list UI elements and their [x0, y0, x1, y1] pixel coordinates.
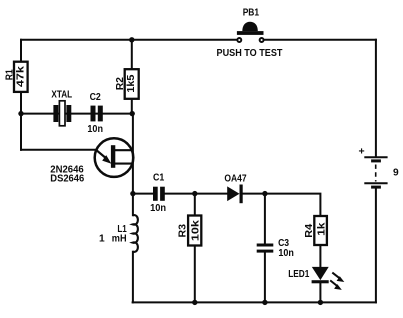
svg-text:DS2646: DS2646	[50, 173, 84, 184]
wire L1 bottom to rail	[132, 252, 134, 303]
capacitor C1	[150, 172, 166, 214]
wire R3 column top	[194, 194, 196, 216]
LED1	[288, 267, 344, 290]
wire base column through transistor	[132, 114, 134, 216]
wire diode to R4 corner	[243, 194, 321, 216]
wire left column	[20, 40, 22, 150]
crystal XTAL	[51, 90, 72, 126]
svg-text:1k5: 1k5	[126, 74, 137, 92]
resistor R3	[178, 216, 202, 246]
wire top rail left segment	[21, 39, 236, 41]
wire top rail right segment	[264, 39, 376, 41]
wire LED to rail	[319, 283, 321, 302]
wire R2 bottom to node	[131, 99, 133, 114]
node R1-XTAL junction	[18, 111, 23, 116]
wire C1 to diode	[165, 193, 227, 195]
wire right column upper	[375, 40, 377, 157]
svg-text:+: +	[359, 145, 365, 157]
wire C1 row left	[133, 193, 153, 195]
svg-text:XTAL: XTAL	[51, 90, 72, 101]
svg-text:1: 1	[99, 234, 105, 245]
node C1-R3 junction	[192, 191, 197, 196]
capacitor C2	[87, 92, 103, 135]
svg-text:OA47: OA47	[224, 174, 246, 185]
svg-text:mH: mH	[112, 234, 127, 245]
wire bottom rail	[133, 301, 376, 303]
wire R3 column bottom	[194, 245, 196, 302]
node R3 bottom junction	[192, 300, 197, 305]
svg-text:10n: 10n	[150, 203, 166, 214]
wire right column lower	[375, 189, 377, 303]
resistor R1	[4, 62, 27, 92]
resistor R2	[115, 69, 139, 99]
wire R4 to LED	[319, 245, 321, 267]
svg-text:PB1: PB1	[243, 8, 260, 19]
capacitor C3	[257, 238, 294, 259]
svg-text:R2: R2	[115, 77, 126, 90]
battery BT1 9V	[359, 145, 399, 188]
svg-text:10n: 10n	[87, 124, 103, 135]
node C3 bottom junction	[262, 300, 267, 305]
svg-text:R3: R3	[178, 224, 189, 238]
push button PB1	[217, 8, 284, 59]
node R2 top junction	[129, 37, 134, 42]
wire emitter row	[21, 149, 97, 151]
resistor R4	[304, 216, 328, 245]
diode D1 OA47	[224, 174, 246, 204]
svg-text:1k: 1k	[317, 222, 328, 236]
node diode-C3 junction	[262, 191, 267, 196]
svg-text:10n: 10n	[278, 248, 294, 259]
wire R2 column top	[131, 40, 133, 69]
svg-text:PUSH TO TEST: PUSH TO TEST	[217, 48, 284, 59]
node R2-C2 junction	[130, 111, 135, 116]
wire C3 column bottom	[264, 253, 266, 303]
svg-text:R4: R4	[304, 224, 315, 238]
svg-text:R1: R1	[4, 69, 15, 80]
svg-text:10k: 10k	[190, 220, 201, 241]
svg-text:47k: 47k	[16, 66, 27, 87]
node LED bottom junction	[318, 300, 323, 305]
svg-text:9: 9	[393, 168, 399, 179]
wire XTAL row	[21, 113, 133, 115]
svg-text:C1: C1	[153, 172, 165, 183]
node C1-L1 junction	[130, 191, 135, 196]
inductor L1	[99, 215, 138, 252]
svg-text:LED1: LED1	[288, 269, 309, 280]
wire C3 column top	[264, 194, 266, 244]
svg-text:C2: C2	[90, 92, 101, 103]
transistor Q1 2N2646	[50, 138, 133, 184]
